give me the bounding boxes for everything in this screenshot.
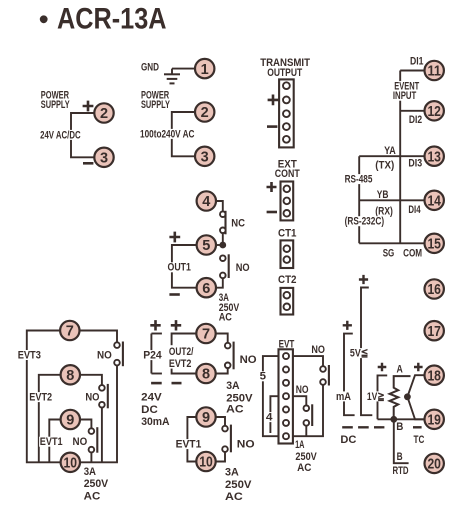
svg-text:NO: NO (240, 354, 257, 366)
svg-text:CONT: CONT (275, 168, 300, 180)
svg-text:RS-485: RS-485 (345, 174, 373, 186)
svg-text:250V: 250V (226, 392, 253, 404)
svg-text:YB: YB (377, 189, 389, 201)
svg-text:1A: 1A (295, 439, 304, 451)
svg-text:NO: NO (73, 436, 88, 448)
svg-text:(TX): (TX) (375, 159, 394, 171)
svg-text:(RS-232C): (RS-232C) (345, 216, 385, 228)
svg-text:NO: NO (97, 349, 112, 361)
svg-text:16: 16 (427, 282, 441, 298)
svg-text:OUT1: OUT1 (168, 262, 192, 274)
svg-text:TC: TC (414, 434, 425, 446)
svg-text:250V: 250V (84, 478, 109, 490)
svg-text:YA: YA (384, 145, 396, 157)
svg-text:12: 12 (427, 104, 441, 120)
svg-text:AC: AC (297, 462, 311, 474)
svg-text:DC: DC (340, 434, 356, 446)
svg-text:2: 2 (201, 105, 209, 121)
svg-text:P24: P24 (143, 350, 162, 362)
svg-text:NO: NO (236, 262, 250, 274)
svg-text:DI3: DI3 (408, 157, 422, 169)
svg-text:DI2: DI2 (409, 114, 422, 126)
svg-text:13: 13 (427, 149, 441, 165)
svg-text:NO: NO (296, 384, 309, 396)
svg-text:1: 1 (201, 62, 209, 78)
svg-text:DC: DC (141, 404, 158, 416)
svg-text:ACR-13A: ACR-13A (57, 3, 167, 36)
svg-text:19: 19 (427, 413, 441, 429)
svg-text:NO: NO (311, 344, 325, 356)
svg-text:9: 9 (66, 413, 74, 429)
svg-text:5: 5 (260, 371, 267, 383)
svg-text:SUPPLY: SUPPLY (41, 99, 70, 111)
svg-text:NO: NO (85, 392, 99, 404)
svg-text:9: 9 (202, 410, 210, 426)
svg-text:CT1: CT1 (278, 227, 297, 239)
svg-text:EVT1: EVT1 (176, 439, 202, 451)
svg-text:GND: GND (141, 61, 159, 73)
svg-text:mA: mA (336, 391, 351, 403)
svg-text:1V≧: 1V≧ (367, 391, 385, 403)
svg-text:17: 17 (427, 324, 441, 340)
svg-text:8: 8 (202, 367, 210, 383)
svg-text:7: 7 (202, 327, 210, 343)
svg-text:250V: 250V (225, 479, 252, 491)
svg-text:7: 7 (66, 324, 74, 340)
svg-text:18: 18 (427, 368, 441, 384)
svg-text:3A: 3A (225, 467, 239, 479)
svg-text:4: 4 (202, 194, 210, 210)
svg-text:OUT2/: OUT2/ (169, 346, 194, 358)
svg-text:B: B (397, 451, 403, 463)
svg-text:CT2: CT2 (278, 274, 297, 286)
svg-text:10: 10 (64, 456, 78, 472)
svg-text:OUTPUT: OUTPUT (267, 67, 302, 79)
svg-text:2: 2 (100, 106, 108, 122)
svg-text:B: B (396, 421, 403, 433)
svg-text:3A: 3A (84, 466, 96, 478)
svg-text:3: 3 (201, 150, 209, 166)
svg-text:SG: SG (383, 248, 395, 260)
svg-text:EVT3: EVT3 (18, 349, 41, 361)
svg-text:EVT2: EVT2 (29, 392, 52, 404)
svg-text:AC: AC (225, 491, 243, 503)
svg-text:EVT2: EVT2 (169, 358, 192, 370)
svg-text:RTD: RTD (393, 465, 409, 477)
svg-text:5: 5 (202, 238, 210, 254)
svg-text:20: 20 (427, 457, 441, 473)
svg-text:AC: AC (226, 404, 243, 416)
svg-text:15: 15 (427, 237, 441, 253)
svg-text:30mA: 30mA (141, 416, 169, 428)
svg-text:DI4: DI4 (408, 204, 421, 216)
svg-text:11: 11 (427, 64, 441, 80)
svg-text:INPUT: INPUT (393, 90, 416, 102)
svg-text:SUPPLY: SUPPLY (141, 99, 170, 111)
svg-text:4: 4 (266, 412, 273, 424)
svg-text:24V AC/DC: 24V AC/DC (40, 129, 81, 141)
svg-text:6: 6 (202, 281, 210, 297)
svg-text:3A: 3A (226, 380, 239, 392)
svg-text:EVT1: EVT1 (40, 436, 63, 448)
svg-text:NC: NC (231, 218, 245, 230)
svg-text:AC: AC (84, 490, 101, 502)
svg-text:AC: AC (219, 311, 232, 323)
svg-text:COM: COM (403, 248, 422, 260)
svg-text:3: 3 (100, 151, 108, 167)
svg-text:5V≦: 5V≦ (350, 348, 368, 360)
svg-text:NO: NO (237, 439, 255, 451)
svg-text:DI1: DI1 (410, 56, 424, 68)
svg-text:A: A (397, 364, 403, 376)
svg-text:100to240V AC: 100to240V AC (140, 128, 195, 140)
svg-text:14: 14 (427, 194, 441, 210)
svg-text:10: 10 (199, 455, 213, 471)
svg-text:8: 8 (66, 368, 74, 384)
svg-text:24V: 24V (141, 392, 162, 404)
